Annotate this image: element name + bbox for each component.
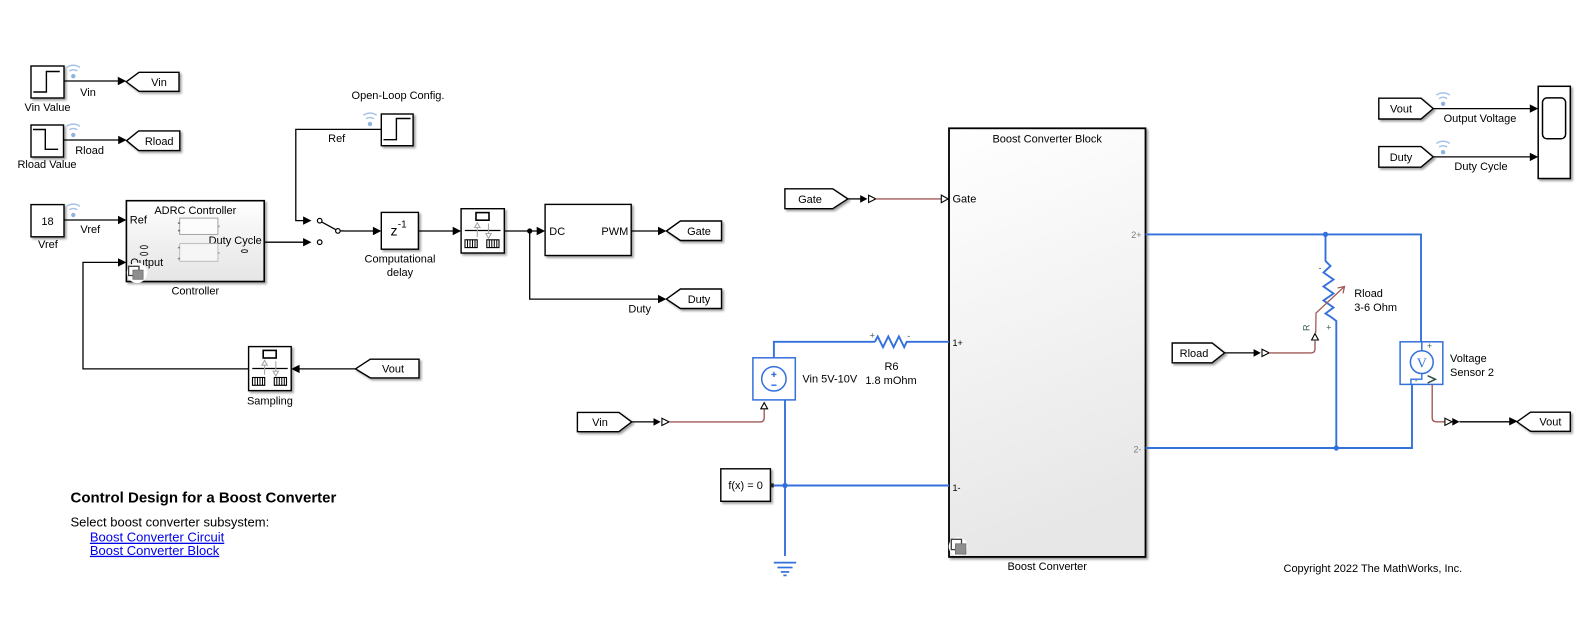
- wire Vin Value to goto Vin: [64, 77, 126, 99]
- wireless icon above Duty wire: [1436, 141, 1449, 154]
- ADRC inner thumbnail rect 2: [178, 244, 220, 262]
- ADRC inner thumbnail rect 1: [178, 218, 220, 234]
- from tag Duty (to scope): [1379, 147, 1433, 168]
- wire computational delay to rate transition: [418, 227, 461, 235]
- svg-text:-: -: [1415, 375, 1418, 385]
- scope block: [1538, 86, 1570, 178]
- subsystem Boost Converter Block: [949, 128, 1146, 557]
- wire from tag Gate to converter: [848, 198, 862, 200]
- svg-text:z: z: [391, 222, 398, 238]
- ADRC inner small ellipses: [140, 246, 247, 256]
- wireless icon of Rload Value: [67, 124, 80, 137]
- svg-text:2+: 2+: [1131, 230, 1141, 240]
- wire branch junction to goto Duty: [530, 231, 667, 315]
- wire Vout to scope input 1: [1433, 104, 1538, 125]
- electrical wire source top through R6 to Boost 1+: [774, 342, 875, 358]
- controlled voltage source Vin 5V-10V: [753, 358, 795, 400]
- svg-text:Duty Cycle: Duty Cycle: [1454, 161, 1507, 173]
- svg-text:Vin: Vin: [151, 77, 167, 89]
- wireless icon above Vout wire: [1436, 93, 1449, 106]
- goto tag Vout: [1517, 412, 1570, 431]
- svg-text:1-: 1-: [953, 483, 961, 493]
- svg-text:Controller: Controller: [171, 286, 219, 298]
- svg-text:+: +: [1326, 323, 1331, 333]
- step source Open-Loop Config.: [381, 114, 413, 146]
- manual switch: [317, 218, 343, 244]
- junction node after rate transition: [527, 228, 532, 233]
- variable resistor Rload: [1319, 234, 1337, 448]
- rate transition block: [461, 209, 504, 253]
- svg-text:ADRC Controller: ADRC Controller: [154, 205, 236, 217]
- subsystem ADRC Controller: [126, 201, 264, 282]
- wireless icon of Vref: [67, 204, 80, 217]
- control port triangle under Vin source: [761, 403, 768, 409]
- from tag Vout (to scope): [1379, 98, 1433, 119]
- svg-text:1+: 1+: [953, 338, 963, 348]
- svg-text:2-: 2-: [1133, 444, 1141, 454]
- svg-text:Ref: Ref: [130, 215, 148, 227]
- svg-text:V: V: [1417, 356, 1427, 371]
- svg-text:Vref: Vref: [80, 224, 101, 236]
- simulink-ps converter for Rload: [1254, 349, 1270, 357]
- svg-text:Rload: Rload: [1354, 288, 1383, 300]
- svg-text:delay: delay: [387, 267, 414, 279]
- wire ADRC Duty Cycle to switch bottom input: [264, 238, 311, 246]
- svg-text:Duty: Duty: [1390, 152, 1413, 164]
- svg-text:R6: R6: [884, 361, 898, 373]
- wire Open-Loop Config to switch top input: [296, 129, 382, 224]
- junction node 2+ rail: [1323, 232, 1328, 237]
- resistor R6 zigzag: [875, 336, 949, 347]
- svg-text:18: 18: [41, 216, 53, 228]
- unit delay block Computational delay: [381, 212, 418, 249]
- goto tag Duty: [666, 289, 721, 309]
- physical signal wire converter to Rload R port: [1269, 341, 1315, 353]
- from tag Vin: [577, 412, 631, 431]
- svg-text:Vout: Vout: [1539, 417, 1561, 429]
- junction node ground net: [782, 483, 787, 488]
- Gate port triangle on Boost Converter: [941, 195, 948, 203]
- from tag Vout (feeds Sampling): [355, 359, 419, 378]
- svg-text:Duty: Duty: [628, 303, 651, 315]
- junction node 2- rail: [1334, 445, 1339, 450]
- wire rate transition to DC-PWM block: [504, 227, 545, 235]
- svg-text:Vin 5V-10V: Vin 5V-10V: [802, 374, 858, 386]
- wire Vref to ADRC Ref input: [64, 216, 126, 236]
- wire from tag Rload to converter: [1225, 352, 1255, 354]
- step source Rload Value: [31, 125, 64, 157]
- from tag Gate: [785, 189, 848, 209]
- wire from tag Vin to converter: [632, 421, 655, 423]
- svg-text:Rload Value: Rload Value: [17, 159, 76, 171]
- svg-text:R: R: [1302, 324, 1312, 331]
- physical signal wire converter to Vin source control port: [669, 410, 764, 422]
- step source Vin Value: [31, 66, 64, 98]
- svg-text:Duty: Duty: [688, 294, 711, 306]
- feedback wire Sampling to ADRC Output input: [83, 258, 249, 369]
- svg-text:Vin: Vin: [592, 417, 608, 429]
- from tag Rload: [1172, 343, 1224, 363]
- ps-simulink converter for Vout: [1445, 418, 1460, 426]
- wire Duty to scope input 2: [1433, 153, 1538, 173]
- svg-text:f(x) = 0: f(x) = 0: [728, 480, 763, 492]
- electrical rail Boost 2+ to sensor top: [1146, 234, 1422, 341]
- ground symbol: [774, 563, 796, 576]
- svg-text:Vin: Vin: [80, 87, 96, 99]
- simulink-ps converter for Gate: [860, 195, 876, 203]
- svg-text:Ref: Ref: [328, 133, 346, 145]
- physical signal wire sensor output to converter: [1432, 384, 1445, 421]
- svg-text:Rload: Rload: [145, 136, 174, 148]
- wire from tag Vout to Sampling: [291, 365, 355, 373]
- svg-text:Vout: Vout: [382, 364, 404, 376]
- svg-text:Computational: Computational: [365, 253, 436, 265]
- goto tag Vin: [126, 72, 179, 91]
- svg-text:Gate: Gate: [953, 194, 977, 206]
- svg-text:Rload: Rload: [75, 145, 104, 157]
- electrical rail Boost 2- to sensor bottom: [1146, 384, 1413, 448]
- wire Rload Value to goto Rload: [64, 136, 127, 157]
- svg-text:-: -: [1319, 263, 1322, 273]
- svg-text:1.8 mOhm: 1.8 mOhm: [865, 375, 916, 387]
- wire PWM to goto Gate: [631, 227, 666, 235]
- rate transition block Sampling: [249, 347, 292, 391]
- svg-text:Vin Value: Vin Value: [24, 102, 70, 114]
- solver configuration block f(x)=0: [721, 469, 774, 502]
- physical signal wire converter to Boost Gate port: [876, 198, 942, 200]
- svg-text:3-6 Ohm: 3-6 Ohm: [1354, 302, 1397, 314]
- svg-text:Output Voltage: Output Voltage: [1444, 113, 1517, 125]
- wire switch to computational delay: [344, 227, 382, 235]
- goto tag Gate: [666, 221, 721, 241]
- svg-text:Copyright 2022 The MathWorks,: Copyright 2022 The MathWorks, Inc.: [1284, 563, 1463, 575]
- svg-text:PWM: PWM: [601, 226, 628, 238]
- svg-text:Vref: Vref: [38, 239, 59, 251]
- svg-text:Rload: Rload: [1180, 348, 1209, 360]
- svg-text:Gate: Gate: [687, 226, 711, 238]
- svg-text:Boost Converter Block: Boost Converter Block: [992, 134, 1102, 146]
- ADRC variant badge: [127, 263, 147, 283]
- Rload variable arrow: [1316, 287, 1345, 334]
- wireless icon of Open-Loop Config.: [363, 113, 376, 126]
- constant block Vref value 18: [31, 205, 64, 237]
- svg-text:-: -: [907, 331, 910, 341]
- svg-text:-1: -1: [398, 220, 407, 231]
- svg-text:DC: DC: [549, 226, 565, 238]
- svg-text:Sampling: Sampling: [247, 395, 293, 407]
- goto tag Rload: [127, 131, 180, 151]
- voltage sensor block Voltage Sensor 2: [1400, 341, 1443, 386]
- svg-text:Open-Loop Config.: Open-Loop Config.: [352, 90, 445, 102]
- svg-text:Boost Converter Block: Boost Converter Block: [90, 543, 220, 558]
- subsystem DC-PWM: [545, 204, 631, 255]
- electrical wire f(x)=0 to Boost 1-: [774, 485, 949, 487]
- Boost Converter variant badge: [949, 537, 968, 556]
- svg-text:+: +: [1427, 341, 1432, 351]
- svg-text:Select boost converter subsyst: Select boost converter subsystem:: [71, 514, 270, 529]
- wire converter to goto Vout: [1460, 417, 1518, 425]
- wireless icon of Vin Value: [67, 65, 80, 78]
- electrical wire source bottom to ground junction: [784, 400, 786, 556]
- svg-text:Voltage: Voltage: [1450, 353, 1487, 365]
- svg-text:+: +: [870, 331, 875, 341]
- svg-text:Control Design for a Boost Con: Control Design for a Boost Converter: [71, 490, 337, 507]
- svg-text:Sensor 2: Sensor 2: [1450, 367, 1494, 379]
- svg-text:Vout: Vout: [1390, 104, 1412, 116]
- svg-text:Boost Converter: Boost Converter: [1007, 561, 1087, 573]
- svg-text:Gate: Gate: [798, 194, 822, 206]
- simulink-ps converter for Vin: [654, 418, 670, 426]
